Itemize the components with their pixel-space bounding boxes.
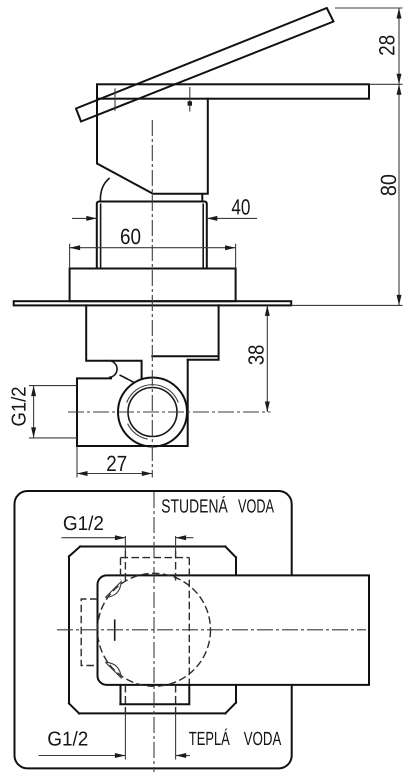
mixer body (side view)	[97, 99, 208, 201]
dim 27 text	[107, 456, 126, 471]
dimension 80	[291, 84, 402, 305]
outlet bore circle	[128, 388, 177, 437]
vertical centerline front view	[153, 492, 155, 772]
label VODA bottom	[244, 732, 282, 745]
dim 40 text	[232, 199, 250, 215]
tangent fillet line	[120, 375, 135, 383]
top port extension lines	[125, 536, 175, 551]
cartridge inner wall left	[100, 204, 102, 269]
outlet boss outer circle	[118, 378, 187, 447]
label G1/2 bottom with leader	[39, 753, 191, 758]
tick mark left on lever	[114, 88, 116, 111]
valve housing below wall, right part	[152, 305, 218, 359]
housing flange (60 wide)	[70, 269, 236, 302]
G1/2 side inlet text	[11, 387, 26, 425]
cartridge inner wall right	[202, 204, 204, 269]
lever handle (side view)	[76, 8, 334, 122]
label VODA top	[238, 499, 274, 512]
housing visible below handle	[120, 685, 189, 704]
outlet thread arc	[127, 385, 179, 439]
label TEPLA	[189, 729, 230, 745]
tick mark right on lever	[189, 87, 191, 112]
dim 80 text	[381, 175, 397, 195]
hidden circle of valve body	[98, 573, 211, 686]
bottom port extension lines	[125, 713, 175, 759]
horizontal centerline outlet	[68, 411, 271, 413]
top port hidden lines	[125, 551, 175, 581]
dimension 40	[72, 216, 257, 221]
label G1/2 top with leader	[62, 535, 194, 540]
thread leaf upper	[105, 582, 121, 598]
dimension G1/2 side inlet	[29, 386, 77, 438]
bottom port hidden lines	[125, 685, 175, 713]
pivot dot	[188, 101, 192, 105]
dome arc of escutcheon	[100, 178, 109, 201]
hidden housing square	[121, 558, 190, 685]
wall cover plate (front view)	[15, 491, 292, 768]
hidden side port bracket	[81, 599, 97, 666]
label STUDENA	[162, 496, 228, 513]
dim 60 text	[121, 229, 140, 245]
escutcheon octagon	[69, 547, 236, 714]
dimension 27	[77, 447, 152, 478]
top cover plate (side view)	[97, 84, 369, 98]
vertical centerline top view	[151, 120, 153, 478]
wall plate (side view)	[14, 301, 292, 305]
cartridge sleeve (40 wide)	[97, 202, 207, 269]
horizontal centerline front view	[57, 629, 366, 631]
valve body (side view)	[77, 360, 188, 446]
valve housing below wall, left part	[86, 305, 141, 378]
dim 28 text	[379, 36, 395, 55]
port bore tick	[114, 619, 116, 640]
dimension 60	[70, 244, 236, 269]
thread leaf lower	[105, 662, 121, 678]
G1/2 top label	[64, 516, 103, 531]
inlet nose bump	[109, 361, 117, 378]
dimension 38	[265, 305, 270, 412]
dim 38 text	[248, 345, 264, 364]
lever handle (front view)	[98, 575, 370, 685]
dimension 28	[335, 8, 403, 84]
G1/2 bottom label	[48, 731, 87, 746]
